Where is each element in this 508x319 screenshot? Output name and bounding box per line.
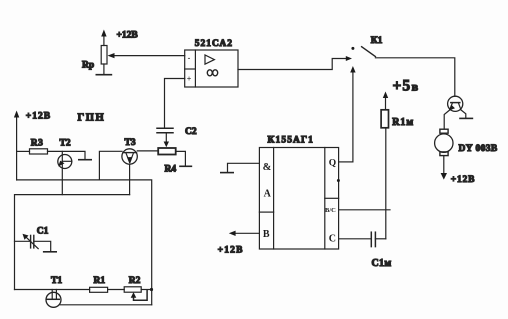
ground (right of C1)	[44, 251, 57, 253]
wire Q output horizontal	[339, 161, 353, 163]
switch K1	[351, 47, 375, 57]
wire bottom rail y305	[60, 304, 151, 306]
infinity symbol inside comparator	[207, 70, 217, 76]
wire R3 to T2 region and stub	[48, 151, 86, 158]
wire R1 to R2	[108, 289, 125, 291]
potentiometer Rp	[101, 46, 107, 65]
wire R2 wiper loop	[131, 290, 147, 300]
wire Q2 base to ground	[461, 110, 466, 118]
capacitor C1 (variable)	[31, 235, 34, 248]
svg-text:К1: К1	[371, 36, 383, 46]
transistor Q2 (right, driver)	[448, 96, 463, 111]
wire C2 to R4 wiper arrow	[164, 133, 169, 148]
svg-text:C2: C2	[185, 127, 197, 137]
node dot on IC right edge	[337, 179, 340, 182]
motor M1 DY003B	[435, 129, 453, 155]
svg-text:-: -	[188, 54, 191, 63]
svg-text:+5в: +5в	[393, 78, 420, 95]
svg-text:521СА2: 521СА2	[195, 39, 233, 49]
wire R/C output	[339, 209, 390, 211]
wire comparator output to K1	[238, 59, 348, 70]
wire Rp wiper to comparator minus input	[108, 53, 185, 58]
svg-text:+12В: +12В	[451, 175, 475, 185]
triangle symbol inside comparator	[205, 55, 214, 64]
wire R1m down to R/C junction and C1m	[385, 128, 387, 239]
svg-text:R1: R1	[94, 276, 106, 286]
potentiometer R2	[124, 287, 141, 292]
svg-text:ГПН: ГПН	[78, 113, 106, 124]
wire +5V arrow to R1m	[383, 92, 388, 110]
wire T3 collector to R4	[137, 150, 158, 152]
svg-text:C1: C1	[37, 226, 49, 236]
svg-text:+12В: +12В	[26, 111, 51, 121]
svg-text:Q: Q	[329, 159, 336, 169]
wire comparator + input to C2	[165, 79, 185, 129]
wire K1 to right transistor	[375, 58, 454, 97]
wire rail to R3	[17, 150, 30, 152]
ground (right of R4)	[180, 165, 191, 167]
svg-text:R4: R4	[165, 164, 177, 174]
svg-text:R2: R2	[129, 276, 141, 286]
wire C1 branch	[15, 240, 31, 242]
wire Q output up to K1 (with up arrow)	[350, 66, 355, 162]
svg-text:DY 003В: DY 003В	[459, 144, 498, 154]
transistor T1	[46, 290, 61, 308]
wire T3 base	[99, 151, 122, 180]
svg-text:A: A	[264, 189, 272, 200]
svg-text:B: B	[263, 229, 270, 240]
node rail +12V left (GPN) arrow	[14, 111, 19, 181]
resistor R3	[30, 149, 48, 154]
svg-text:R3: R3	[31, 138, 44, 148]
IC U2 K155AG1	[259, 148, 338, 250]
svg-text:+12В: +12В	[117, 31, 139, 41]
ground (below Rp)	[96, 74, 111, 76]
wire emitter common rail y194.6	[15, 195, 130, 290]
transistor T3	[122, 149, 137, 164]
ground (right of Q2)	[460, 117, 472, 119]
svg-text:+: +	[187, 75, 192, 84]
wire T2 emitter down	[129, 164, 131, 194]
wire & input to ground	[228, 163, 260, 172]
wire horizontal rail y180	[17, 180, 152, 305]
svg-text:+12В: +12В	[218, 246, 244, 256]
ground (right of T2)	[79, 159, 91, 161]
transistor T2	[58, 151, 72, 194]
capacitor C2	[157, 128, 173, 133]
resistor R1m	[381, 110, 388, 128]
op-amp comparator U1 521CA2	[185, 50, 238, 87]
wire motor to +12V (down arrow)	[441, 156, 447, 180]
wire Q2 emitter to motor	[444, 110, 450, 129]
svg-text:В/С: В/С	[325, 207, 336, 214]
potentiometer R4	[158, 148, 176, 155]
svg-text:R1м: R1м	[392, 117, 414, 128]
wire +12V rail to Rp top arrow	[101, 30, 106, 46]
wire bottom row y289.5	[15, 289, 90, 291]
wire C output to C1m	[339, 238, 371, 240]
svg-text:К155АГ1: К155АГ1	[268, 135, 315, 145]
wire R4 to ground	[176, 151, 186, 165]
svg-text:Rp: Rp	[82, 61, 94, 71]
svg-text:T2: T2	[60, 138, 71, 148]
wire B input with +12V arrow	[229, 231, 260, 236]
wire R2 to right rail	[141, 289, 152, 291]
wire Rp bottom	[103, 64, 105, 75]
wire C1 to ground	[34, 241, 51, 251]
wire C1m to vertical	[375, 238, 385, 240]
capacitor C1m	[371, 232, 375, 246]
svg-text:C: C	[329, 234, 336, 245]
node junction R2/right rail	[150, 288, 153, 291]
svg-text:T3: T3	[125, 138, 136, 148]
resistor R1	[90, 287, 108, 292]
svg-text:С1м: С1м	[372, 258, 392, 269]
svg-text:&: &	[263, 162, 272, 173]
ground (left of IC)	[221, 172, 233, 174]
svg-text:T1: T1	[51, 276, 62, 286]
